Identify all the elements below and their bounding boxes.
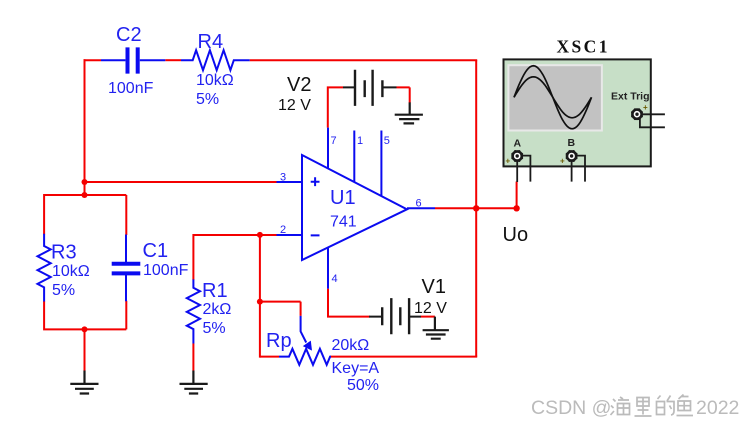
terminal Ext Trig xyxy=(632,110,641,119)
svg-text:V1: V1 xyxy=(422,276,446,298)
svg-text:Rp: Rp xyxy=(266,330,292,352)
svg-text:50%: 50% xyxy=(347,377,379,394)
svg-text:V2: V2 xyxy=(287,74,311,96)
op-amp U1 xyxy=(277,128,436,289)
svg-text:5%: 5% xyxy=(52,282,75,299)
svg-text:2022: 2022 xyxy=(696,397,739,419)
wire V2 negative to ground xyxy=(397,87,410,102)
svg-text:2: 2 xyxy=(280,224,286,236)
svg-text:5: 5 xyxy=(384,135,390,147)
wire box to ground xyxy=(84,329,86,370)
battery V2 xyxy=(278,70,397,114)
wire noninverting input xyxy=(85,181,277,183)
svg-text:4: 4 xyxy=(332,273,338,285)
wire R4 to right vertical xyxy=(250,59,478,61)
ground for R3C1 box xyxy=(70,371,98,394)
svg-text:R1: R1 xyxy=(202,280,228,302)
svg-text:Ext Trig: Ext Trig xyxy=(611,91,650,103)
svg-text:2kΩ: 2kΩ xyxy=(203,301,232,318)
ground for V1 xyxy=(423,317,449,339)
wire between C2 and R4 xyxy=(165,59,181,61)
svg-text:Uo: Uo xyxy=(503,224,529,246)
wire R1 top xyxy=(192,234,194,280)
resistor R1 xyxy=(187,279,232,343)
wire V1 positive to ground xyxy=(421,316,435,318)
svg-text:7: 7 xyxy=(331,135,337,147)
wire pin4 to V1 xyxy=(327,289,370,317)
svg-text:A: A xyxy=(514,138,522,150)
svg-text:10kΩ: 10kΩ xyxy=(196,72,234,89)
wire R3C1 box bottom rail xyxy=(43,301,126,331)
resistor R4 xyxy=(181,31,250,108)
wire output to scope A xyxy=(516,182,518,210)
terminal A xyxy=(513,151,522,160)
svg-text:R3: R3 xyxy=(51,242,77,264)
svg-text:12 V: 12 V xyxy=(414,300,447,317)
wire right vertical xyxy=(475,60,477,356)
potentiometer Rp xyxy=(266,316,379,394)
wire inverting input xyxy=(193,234,276,236)
svg-text:741: 741 xyxy=(330,214,357,231)
node junction box top xyxy=(82,192,88,198)
ground for R1 xyxy=(180,371,208,394)
node junction output xyxy=(473,205,479,211)
node Uo output label xyxy=(503,224,529,246)
svg-text:3: 3 xyxy=(280,172,286,184)
svg-text:+: + xyxy=(506,157,511,166)
wire top-left horizontal to C2 xyxy=(84,59,102,61)
svg-text:+: + xyxy=(643,103,648,112)
capacitor C2 xyxy=(101,24,165,97)
wire inverting node vertical xyxy=(259,235,261,358)
terminal B xyxy=(567,151,576,160)
svg-text:20kΩ: 20kΩ xyxy=(332,337,370,354)
svg-text:C1: C1 xyxy=(143,240,169,262)
svg-text:C2: C2 xyxy=(116,24,142,46)
svg-text:12 V: 12 V xyxy=(278,97,311,114)
svg-text:U1: U1 xyxy=(330,187,356,209)
svg-text:1: 1 xyxy=(357,135,363,147)
resistor R3 xyxy=(38,234,90,302)
node junction box bottom xyxy=(82,326,88,332)
ground for V2 xyxy=(395,102,423,123)
svg-text:B: B xyxy=(568,137,576,149)
wire output xyxy=(435,207,517,209)
svg-text:10kΩ: 10kΩ xyxy=(52,263,90,280)
node junction wiper xyxy=(257,299,263,305)
wire Rp to right vertical xyxy=(330,356,477,358)
svg-text:5%: 5% xyxy=(196,91,219,108)
node junction noninverting xyxy=(82,179,88,185)
svg-text:100nF: 100nF xyxy=(108,80,154,97)
oscilloscope XSC1 xyxy=(504,37,665,183)
wire bottom left to Rp xyxy=(260,356,279,358)
wire V2 positive xyxy=(327,87,343,127)
svg-text:XSC1: XSC1 xyxy=(557,37,610,57)
svg-text:6: 6 xyxy=(416,198,422,210)
svg-text:100nF: 100nF xyxy=(143,262,189,279)
watermark xyxy=(531,397,739,419)
wire wiper branch xyxy=(260,302,301,316)
svg-text:Key=A: Key=A xyxy=(332,360,380,377)
wire R3C1 box top rail xyxy=(43,195,126,235)
svg-text:5%: 5% xyxy=(203,320,226,337)
svg-text:CSDN @: CSDN @ xyxy=(531,397,611,419)
wire R1 to ground xyxy=(192,344,194,371)
wire left vertical xyxy=(84,59,86,196)
battery V1 xyxy=(369,276,447,334)
node junction inverting xyxy=(257,232,263,238)
node junction scope corner xyxy=(513,205,519,211)
svg-text:+: + xyxy=(560,157,565,166)
capacitor C1 xyxy=(112,235,189,302)
svg-text:R4: R4 xyxy=(198,31,224,53)
